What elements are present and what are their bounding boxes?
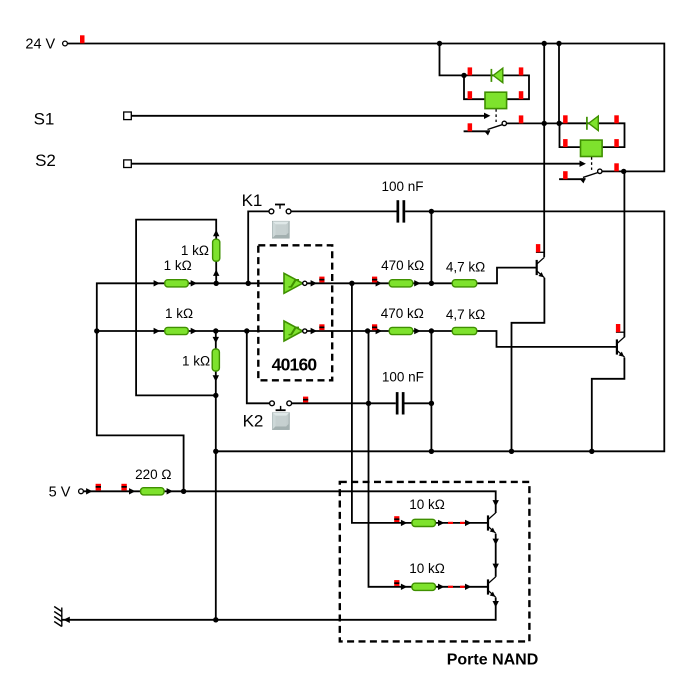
svg-text:Porte NAND: Porte NAND	[447, 652, 539, 669]
svg-text:1 kΩ: 1 kΩ	[182, 353, 210, 368]
svg-text:40160: 40160	[272, 354, 318, 374]
svg-text:K1: K1	[242, 191, 263, 210]
svg-text:100 nF: 100 nF	[382, 370, 424, 385]
svg-text:S2: S2	[35, 151, 56, 170]
svg-text:1 kΩ: 1 kΩ	[164, 258, 192, 273]
svg-text:S1: S1	[34, 110, 55, 129]
svg-text:4,7 kΩ: 4,7 kΩ	[446, 259, 485, 274]
svg-text:10 kΩ: 10 kΩ	[409, 561, 445, 576]
svg-text:220 Ω: 220 Ω	[135, 467, 171, 482]
svg-text:5 V: 5 V	[49, 484, 71, 500]
svg-text:10 kΩ: 10 kΩ	[409, 497, 445, 512]
svg-text:100 nF: 100 nF	[381, 179, 423, 194]
svg-text:24 V: 24 V	[25, 36, 55, 52]
svg-text:470 kΩ: 470 kΩ	[381, 306, 424, 321]
svg-text:K2: K2	[243, 412, 264, 431]
svg-text:1 kΩ: 1 kΩ	[181, 243, 209, 258]
svg-text:4,7 kΩ: 4,7 kΩ	[446, 307, 485, 322]
svg-text:1 kΩ: 1 kΩ	[165, 306, 193, 321]
svg-text:470 kΩ: 470 kΩ	[381, 258, 424, 273]
